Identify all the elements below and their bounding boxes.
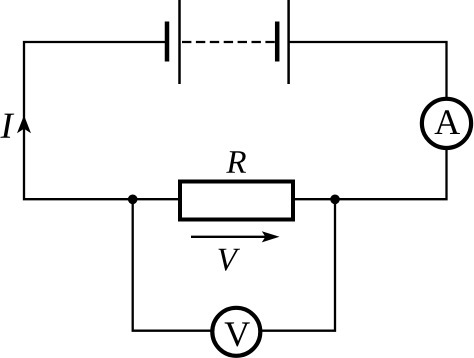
ammeter A1 circle xyxy=(422,99,471,148)
voltmeter letter V xyxy=(225,322,250,346)
resistor R box xyxy=(180,182,293,220)
wire: top-right from battery to right side, down to ammeter xyxy=(289,42,447,98)
node dot left xyxy=(128,195,138,205)
ammeter letter A xyxy=(435,110,460,134)
wire: voltmeter branch left xyxy=(133,199,212,331)
wire: voltmeter branch right xyxy=(261,199,335,331)
label R xyxy=(226,151,246,173)
wire: ammeter bottom to middle-right node xyxy=(293,149,447,199)
wire: top-left from battery to left side, down to middle node xyxy=(24,42,180,199)
battery cell 1 long thin plate xyxy=(178,0,181,84)
voltage arrow under resistor xyxy=(191,236,266,238)
battery cell 2 long thin plate xyxy=(287,0,290,84)
label I xyxy=(0,114,14,138)
battery dashed link between cells xyxy=(182,41,275,43)
label V xyxy=(218,249,240,271)
current arrowhead on left wire xyxy=(17,115,31,133)
battery cell 2 short thick plate xyxy=(275,22,280,62)
battery cell 1 short thick plate xyxy=(165,22,170,62)
node dot right xyxy=(330,195,340,205)
voltmeter V1 circle xyxy=(212,308,260,356)
